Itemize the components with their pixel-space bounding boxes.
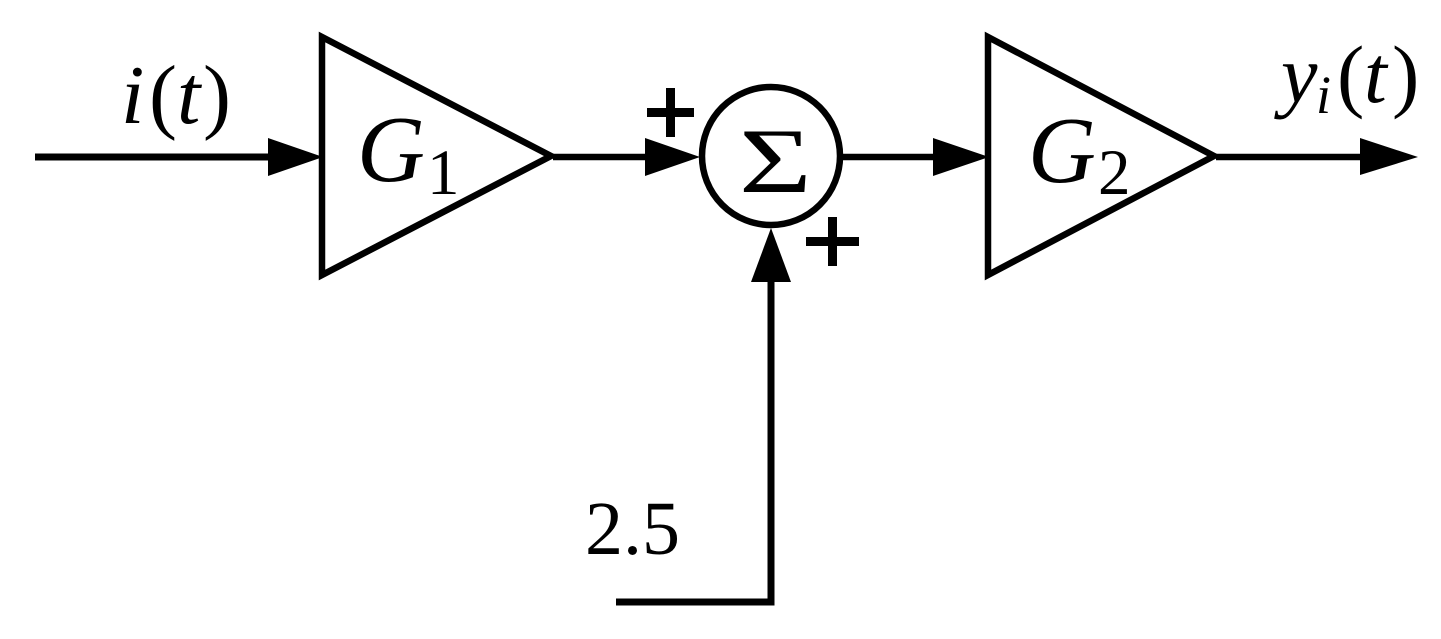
svg-text:(: ( (149, 49, 177, 142)
wire G1 to summer (553, 154, 650, 161)
arrowhead into summer bottom (751, 228, 791, 282)
svg-text:): ) (203, 49, 231, 142)
arrowhead into summer (645, 138, 700, 176)
plus sign lower-right of summer (806, 217, 859, 266)
amplifier G2 (988, 37, 1214, 275)
svg-text:G: G (357, 98, 425, 202)
wire constant feed horizontal (616, 599, 775, 606)
svg-text:t: t (1364, 29, 1389, 120)
arrowhead into G2 (933, 138, 989, 176)
svg-text:i: i (1316, 65, 1331, 125)
plus sign upper-left of summer (647, 88, 694, 137)
svg-text:G: G (1028, 99, 1096, 203)
svg-text:y: y (1274, 29, 1318, 120)
wire input line (35, 154, 275, 161)
svg-text:1: 1 (427, 137, 460, 209)
svg-text:): ) (1392, 29, 1419, 120)
summing junction circle (702, 87, 840, 225)
svg-text:Σ: Σ (739, 110, 812, 212)
wire G2 output (1216, 154, 1365, 161)
amplifier G1 (322, 37, 551, 275)
arrowhead output (1360, 138, 1418, 175)
svg-text:2.5: 2.5 (585, 487, 680, 571)
svg-text:i: i (121, 49, 144, 142)
svg-text:2: 2 (1098, 137, 1131, 209)
wire summer to G2 (840, 154, 940, 161)
svg-text:t: t (177, 49, 203, 142)
wire constant feed vertical (768, 270, 775, 606)
svg-text:(: ( (1337, 29, 1364, 120)
arrowhead input into G1 (268, 138, 323, 176)
